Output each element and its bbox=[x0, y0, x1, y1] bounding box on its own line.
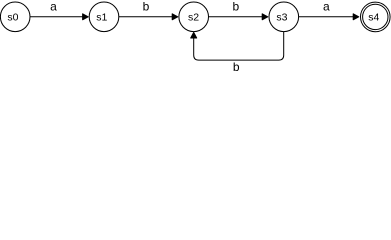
svg-text:s1: s1 bbox=[96, 12, 107, 24]
svg-text:a: a bbox=[50, 0, 57, 13]
svg-text:s0: s0 bbox=[7, 12, 18, 24]
wire s2-s3 bbox=[209, 16, 263, 18]
svg-text:b: b bbox=[143, 0, 150, 13]
arrowhead into s1 bbox=[83, 14, 89, 20]
svg-text:a: a bbox=[323, 0, 330, 13]
state s3 bbox=[269, 2, 299, 32]
arrowhead into s4 bbox=[353, 14, 359, 20]
svg-text:s4: s4 bbox=[368, 12, 379, 24]
state s1 bbox=[89, 2, 119, 32]
svg-text:s3: s3 bbox=[276, 12, 287, 24]
arrowhead into s3 bbox=[262, 14, 268, 20]
arrowhead into s2 bbox=[172, 14, 178, 20]
state s4 inner circle bbox=[363, 4, 388, 29]
wire s1-s2 bbox=[119, 16, 173, 18]
state s0 bbox=[0, 2, 30, 32]
wire s3-s4 bbox=[299, 16, 354, 18]
wire s0-s1 bbox=[30, 16, 83, 18]
wire back edge s3-s2 (down, left, up) bbox=[194, 32, 284, 60]
state s4 outer circle (accepting) bbox=[361, 2, 391, 32]
svg-text:s2: s2 bbox=[188, 12, 199, 24]
state s2 bbox=[179, 2, 209, 32]
svg-text:b: b bbox=[233, 60, 240, 74]
svg-text:b: b bbox=[233, 0, 240, 13]
arrowhead into s2 from below bbox=[191, 32, 197, 38]
